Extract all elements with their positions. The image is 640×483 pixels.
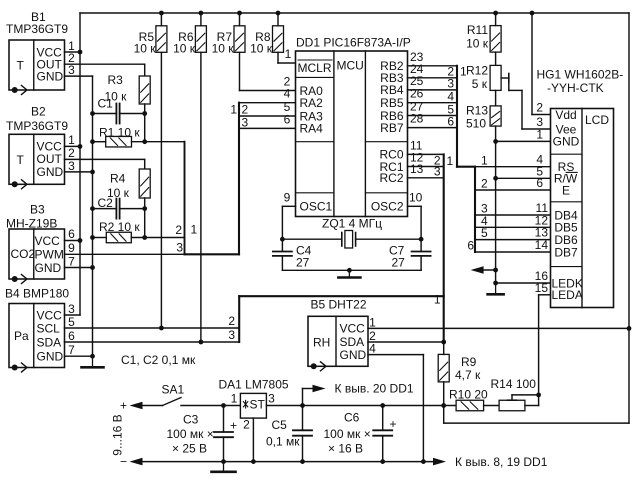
wire 3 to LCD DB4 — [475, 214, 551, 216]
svg-text:+: + — [390, 417, 397, 431]
wire RB2 / wire 1 — [408, 65, 458, 67]
svg-text:-YYH-CTK: -YYH-CTK — [547, 81, 604, 95]
node R1 left junction — [90, 139, 95, 144]
svg-text:TMP36GT9: TMP36GT9 — [6, 22, 68, 36]
svg-text:TMP36GT9: TMP36GT9 — [6, 119, 68, 133]
svg-text:R2 10 к: R2 10 к — [99, 220, 140, 234]
node DA1 pin2 junction — [251, 459, 256, 464]
wire RC2 / wire 3 — [408, 177, 444, 179]
resistor R8 — [273, 26, 284, 53]
resistor R12 trimmer — [490, 65, 501, 90]
node R1 right junction — [142, 139, 147, 144]
svg-text:2: 2 — [68, 146, 75, 160]
svg-text:2: 2 — [536, 101, 543, 115]
wire R2 right / node B wire 2 to group line — [131, 237, 184, 239]
resistor R2 — [106, 232, 131, 243]
node C6 bottom junction — [380, 459, 385, 464]
node DHT22 GND junction — [421, 459, 426, 464]
sensor B3 transducer mark — [12, 275, 27, 284]
node R2 right junction — [142, 235, 147, 240]
svg-text:1: 1 — [536, 127, 543, 141]
svg-text:RA2: RA2 — [300, 96, 324, 110]
svg-text:Pa: Pa — [14, 329, 29, 343]
wire R1 left to ground column — [93, 141, 106, 143]
node C5 bottom junction — [300, 459, 305, 464]
wire R2 left to ground column — [93, 237, 107, 239]
sensor B5 transducer mark — [311, 362, 326, 371]
wire RB6 / wire 5 — [408, 115, 458, 117]
svg-text:MCU: MCU — [337, 58, 364, 72]
svg-text:T: T — [17, 59, 25, 73]
node +5V/LCD Vdd junction — [530, 11, 535, 16]
sensor B4 box — [9, 304, 65, 368]
svg-text:LEDA: LEDA — [552, 288, 583, 302]
svg-text:RB7: RB7 — [380, 121, 404, 135]
svg-text:3: 3 — [68, 159, 75, 173]
svg-text:R12: R12 — [466, 64, 488, 78]
svg-text:6: 6 — [447, 114, 454, 128]
trimmer R14 wiper — [508, 399, 517, 401]
svg-text:1: 1 — [230, 102, 237, 116]
resistor R6 — [195, 26, 206, 53]
wire R12 to R13 — [495, 90, 497, 106]
wire 6 to LCD DB7 — [475, 251, 551, 253]
wire R1 right / node A wire 1 to group line — [132, 141, 185, 143]
wire R4 bottom to C2/R2 node — [144, 198, 146, 238]
svg-text:RH: RH — [313, 335, 330, 349]
svg-text:9: 9 — [284, 190, 291, 204]
trimmer R12 wiper — [501, 77, 509, 79]
wire +5V right edge — [628, 13, 630, 423]
sensor B3 box — [9, 229, 65, 279]
wire to common arrow — [477, 269, 496, 271]
node B2 VCC junction — [78, 144, 83, 149]
svg-text:6: 6 — [467, 239, 474, 253]
wire LCD LEDK to ground — [496, 282, 551, 284]
svg-text:28: 28 — [410, 112, 424, 126]
node R5/SCL junction — [159, 326, 164, 331]
svg-text:VCC: VCC — [37, 308, 63, 322]
svg-text:R1 10 к: R1 10 к — [99, 125, 140, 139]
wire C2 right to R4 node — [120, 208, 145, 210]
svg-text:10 к: 10 к — [134, 42, 157, 56]
svg-text:OSC2: OSC2 — [371, 200, 404, 214]
node C6 top junction — [380, 403, 385, 408]
node crystal right junction — [419, 237, 424, 242]
svg-text:GND: GND — [340, 348, 367, 362]
ground sensor column — [82, 356, 104, 367]
wire R8 bottom to MCLR — [277, 52, 279, 63]
wire to pin 20 DD1 arrow — [302, 389, 304, 406]
svg-text:B5 DHT22: B5 DHT22 — [311, 297, 367, 311]
svg-text:7: 7 — [68, 343, 75, 357]
svg-text:10 к: 10 к — [173, 42, 196, 56]
svg-text:Vdd: Vdd — [555, 108, 576, 122]
svg-text:B3: B3 — [30, 203, 45, 217]
wire LCD LEDA down to R14 — [539, 294, 551, 296]
resistor R13 — [490, 106, 501, 126]
node LCD R/W junction — [493, 176, 498, 181]
sensor B4 transducer mark — [12, 363, 27, 372]
svg-text:1: 1 — [231, 392, 238, 406]
capacitor C4 — [273, 252, 292, 256]
wire R7 bottom to RA0 — [239, 52, 241, 90]
svg-text:B4 BMP180: B4 BMP180 — [5, 287, 69, 301]
capacitor C7 — [412, 252, 431, 256]
svg-text:1: 1 — [285, 47, 292, 61]
wire 1 to RA2 — [239, 102, 296, 104]
wire RB7 / wire 6 — [408, 127, 458, 129]
ground crystal — [338, 270, 360, 277]
sensor B2 box — [9, 134, 65, 184]
svg-text:C5: C5 — [272, 418, 288, 432]
wire +5V loop down — [443, 406, 445, 424]
svg-text:GND: GND — [37, 70, 64, 84]
wire R11 to R12 — [495, 52, 497, 65]
wire B3 PWM / wire 3 to group line — [65, 253, 240, 255]
wire RB3 / wire 2 — [408, 77, 458, 79]
wire B3 GND to ground column — [65, 267, 93, 269]
svg-text:R4: R4 — [110, 172, 126, 186]
svg-text:3: 3 — [68, 302, 75, 316]
wire I2C group branch — [239, 295, 444, 297]
wire input minus with arrow — [130, 458, 143, 466]
wire 2 to LCD E — [475, 189, 551, 191]
svg-text:3: 3 — [228, 328, 235, 342]
resistor R14 trimmer — [499, 400, 525, 411]
node +5V/R7 junction — [237, 11, 242, 16]
resistor R11 — [490, 26, 501, 52]
svg-text:4,7 к: 4,7 к — [455, 368, 481, 382]
svg-text:К выв. 8, 19 DD1: К выв. 8, 19 DD1 — [455, 455, 548, 469]
svg-text:CO2: CO2 — [11, 247, 36, 261]
svg-text:14: 14 — [535, 238, 549, 252]
op-amp DD1 box — [296, 51, 408, 217]
sensor B1 transducer mark — [12, 86, 27, 95]
wire group line to RA ports — [238, 103, 240, 255]
svg-text:R3: R3 — [108, 73, 124, 87]
svg-text:−: − — [120, 454, 127, 468]
wire B1 VCC to +5V column — [65, 51, 81, 53]
svg-text:1: 1 — [447, 154, 454, 168]
svg-text:GND: GND — [553, 135, 580, 149]
svg-text:3: 3 — [242, 115, 249, 129]
wire RC1 / wire 2 — [408, 166, 444, 168]
wire RC group line down — [443, 154, 445, 342]
wire B5 VCC +5V rail — [368, 327, 629, 329]
wire B3 VCC to +5V column — [65, 240, 81, 242]
svg-text:SCL: SCL — [37, 321, 61, 335]
svg-text:6: 6 — [68, 227, 75, 241]
node LCD GND junction — [493, 139, 498, 144]
resistor R1 — [106, 136, 132, 147]
svg-text:3: 3 — [68, 63, 75, 77]
wire input plus with arrow — [130, 402, 143, 410]
svg-text:× 16 В: × 16 В — [328, 441, 363, 455]
wire R14 to LEDA line — [525, 405, 539, 407]
node B4 GND junction — [90, 354, 95, 359]
wire R3 bottom to C1/R1 node — [144, 104, 146, 142]
svg-text:1: 1 — [481, 153, 488, 167]
wire LCD R/W to ground — [496, 177, 551, 179]
sensor B5 box — [308, 316, 368, 366]
node B3 GND junction — [90, 265, 95, 270]
wire R13 bottom ground column — [495, 126, 497, 283]
wire crystal ground rail — [282, 269, 421, 271]
svg-text:13: 13 — [410, 162, 424, 176]
svg-text:DA1 LM7805: DA1 LM7805 — [219, 378, 289, 392]
svg-text:C6: C6 — [344, 411, 360, 425]
node +5V/R5 junction — [159, 11, 164, 16]
node C1 right junction — [142, 111, 147, 116]
node C5 top junction — [300, 403, 305, 408]
switch SA1 — [163, 398, 182, 406]
svg-text:2: 2 — [481, 177, 488, 191]
node R9/R10/+5V junction — [441, 403, 446, 408]
svg-text:R11: R11 — [467, 23, 488, 37]
wire C2 left to ground column — [93, 208, 117, 210]
wire B1 GND to ground column — [65, 75, 93, 77]
resistor R3 — [139, 76, 150, 104]
ground C3 — [212, 462, 236, 472]
svg-text:1: 1 — [369, 315, 376, 329]
ground LCD chain — [488, 283, 504, 294]
wire 1 to LCD RS — [457, 166, 551, 168]
svg-text:6: 6 — [284, 112, 291, 126]
svg-text:15: 15 — [535, 281, 549, 295]
svg-text:10 к: 10 к — [250, 42, 273, 56]
svg-text:10: 10 — [409, 190, 423, 204]
svg-text:2: 2 — [243, 418, 250, 432]
svg-text:ST: ST — [250, 398, 266, 412]
capacitor C2 — [116, 199, 119, 219]
wire B5 SDA to RC0 harness — [368, 341, 444, 343]
wire 2 to RA3 — [239, 115, 296, 117]
wire +5V to LCD Vdd — [531, 13, 533, 115]
resistor R4 — [139, 169, 150, 198]
wire +5V top rail — [80, 12, 629, 14]
node crystal left junction — [280, 237, 285, 242]
node R14 wiper junction — [536, 393, 541, 398]
svg-text:4: 4 — [284, 87, 291, 101]
svg-text:DB7: DB7 — [554, 245, 578, 259]
node C2 left junction — [90, 206, 95, 211]
wire B4 VCC to +5V column — [65, 314, 81, 316]
display HG1 box — [551, 108, 614, 308]
resistor R10 — [456, 400, 484, 411]
wire OSC2 to crystal — [408, 205, 422, 207]
wire 5 to LCD DB6 — [475, 239, 551, 241]
node R6/SDA junction — [199, 340, 204, 345]
svg-text:3: 3 — [434, 165, 441, 179]
wire RB group line down — [456, 66, 458, 167]
wire R10 to R14 — [484, 405, 500, 407]
svg-text:C3: C3 — [183, 413, 199, 427]
svg-text:RC2: RC2 — [379, 171, 403, 185]
svg-text:6: 6 — [536, 176, 543, 190]
svg-text:HG1 WH1602B-: HG1 WH1602B- — [537, 68, 624, 82]
wire OSC1 to crystal — [282, 205, 295, 207]
svg-text:ZQ1 4 МГц: ZQ1 4 МГц — [322, 216, 382, 230]
svg-text:9...16 В: 9...16 В — [111, 414, 125, 455]
capacitor C5 — [293, 430, 312, 435]
svg-text:RA4: RA4 — [300, 122, 324, 136]
svg-text:R14 100: R14 100 — [491, 377, 537, 391]
capacitor C1 — [116, 104, 119, 124]
svg-text:10 к: 10 к — [212, 42, 235, 56]
wire R6 bottom to SDA — [200, 52, 202, 342]
capacitor C6 polarized — [373, 430, 392, 435]
node +5V/R11 junction — [493, 11, 498, 16]
node SDA/R9 junction — [441, 340, 446, 345]
svg-text:100 мк ×: 100 мк × — [167, 427, 214, 441]
wire LCD GND pin — [496, 140, 551, 142]
regulator DA1 box — [240, 393, 266, 418]
node +5V rail right junction — [627, 326, 632, 331]
svg-text:GND: GND — [37, 165, 64, 179]
svg-text:К выв. 20 DD1: К выв. 20 DD1 — [335, 381, 414, 395]
svg-text:OSC1: OSC1 — [300, 200, 333, 214]
svg-text:MCLR: MCLR — [298, 61, 332, 75]
svg-text:2: 2 — [228, 314, 235, 328]
capacitor C3 polarized — [214, 432, 233, 437]
wire B4 GND to ground — [65, 355, 93, 357]
wire B4 SCL / wire 2 of I2C harness — [65, 327, 240, 329]
svg-text:27: 27 — [296, 255, 310, 269]
svg-text:GND: GND — [35, 261, 62, 275]
svg-text:DD1 PIC16F873A-I/P: DD1 PIC16F873A-I/P — [296, 36, 411, 50]
node crystal ground junction — [347, 268, 352, 273]
svg-text:3: 3 — [268, 392, 275, 406]
svg-text:5: 5 — [481, 226, 488, 240]
wire B2 VCC to +5V column — [65, 145, 81, 147]
wire B5 GND down — [368, 354, 423, 356]
sensor B2 transducer mark — [12, 180, 27, 189]
wire RB5 / wire 4 — [408, 102, 458, 104]
node +5V/R6 junction — [199, 11, 204, 16]
svg-text:LCD: LCD — [585, 113, 609, 127]
resistor R5 — [156, 26, 167, 53]
svg-text:9: 9 — [68, 241, 75, 255]
wire ground rail arrow to DD1 — [433, 458, 446, 466]
node C2 right junction — [142, 206, 147, 211]
svg-text:C1, C2 0,1 мк: C1, C2 0,1 мк — [121, 353, 196, 367]
node common arrow junction — [493, 268, 498, 273]
svg-text:0,1 мк: 0,1 мк — [266, 435, 300, 449]
svg-text:E: E — [562, 183, 570, 197]
wire B2 GND to ground column — [65, 171, 93, 173]
wire 4 to LCD DB5 — [475, 226, 551, 228]
svg-text:VCC: VCC — [340, 322, 366, 336]
resistor R9 — [438, 354, 449, 382]
svg-text:10 к: 10 к — [466, 36, 489, 50]
node B2 GND junction — [90, 170, 95, 175]
wire +5V sensor column — [79, 13, 81, 315]
wire C1 left to ground column — [93, 113, 117, 115]
svg-text:+: + — [230, 419, 237, 433]
svg-text:7: 7 — [68, 254, 75, 268]
svg-text:5: 5 — [68, 315, 75, 329]
svg-text:VCC: VCC — [35, 234, 61, 248]
svg-text:GND: GND — [37, 349, 64, 363]
svg-text:T: T — [17, 153, 25, 167]
wire R5 bottom to SCL — [160, 52, 162, 328]
wire B1 OUT to R3 — [65, 63, 145, 65]
svg-text:R10 20: R10 20 — [449, 387, 488, 401]
node C3 top junction — [221, 403, 226, 408]
svg-text:PWM: PWM — [35, 247, 64, 261]
svg-text:× 25 В: × 25 В — [172, 442, 207, 456]
wire +5V output rail — [266, 405, 456, 407]
svg-text:R13: R13 — [466, 103, 488, 117]
svg-text:27: 27 — [392, 255, 406, 269]
wire B2 OUT to R4 — [65, 158, 145, 160]
svg-text:C1: C1 — [98, 97, 114, 111]
svg-text:510: 510 — [466, 116, 486, 130]
crystal ZQ1 — [282, 231, 421, 249]
node LCD LEDK junction — [493, 281, 498, 286]
svg-text:SA1: SA1 — [162, 383, 185, 397]
svg-text:2: 2 — [175, 223, 182, 237]
svg-text:6: 6 — [68, 329, 75, 343]
node C3 bottom junction — [221, 459, 226, 464]
node C1 left junction — [90, 111, 95, 116]
wire B4 SDA / wire 3 of I2C harness — [65, 341, 240, 343]
node B1 VCC junction — [78, 50, 83, 55]
svg-text:5 к: 5 к — [472, 77, 488, 91]
svg-text:+: + — [120, 399, 127, 413]
wire C1 right to R3 node — [120, 113, 145, 115]
svg-text:1: 1 — [434, 293, 441, 307]
svg-text:3: 3 — [176, 240, 183, 254]
node B3 VCC junction — [78, 238, 83, 243]
svg-text:OUT: OUT — [37, 152, 63, 166]
node +5V/R8 junction — [276, 11, 281, 16]
svg-text:1: 1 — [191, 223, 198, 237]
sensor B1 box — [9, 40, 65, 90]
wire 3 to RA4 — [239, 127, 296, 129]
resistor R7 — [234, 26, 245, 53]
svg-text:B2: B2 — [31, 105, 46, 119]
svg-text:100 мк ×: 100 мк × — [324, 427, 371, 441]
svg-text:SDA: SDA — [37, 335, 62, 349]
wire DA1 pin2 to ground rail — [252, 418, 254, 462]
wire RB4 / wire 3 — [408, 89, 458, 91]
svg-text:4: 4 — [369, 342, 376, 356]
wire RC0 / wire 1 — [408, 153, 444, 155]
wire sensor ground column — [92, 114, 94, 357]
node R2 left junction — [90, 235, 95, 240]
